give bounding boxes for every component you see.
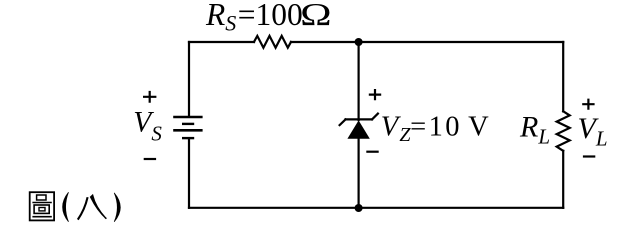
- wire middle rail lower: [358, 139, 360, 208]
- junction dot bottom node: [355, 204, 363, 212]
- wire top-right segment: [291, 41, 563, 43]
- label figure caption: character tu (figure): [30, 192, 54, 220]
- junction dot top node: [355, 38, 363, 46]
- zener bar right tail: [372, 114, 378, 120]
- plus sign V_Z: [369, 89, 381, 100]
- wire right rail upper: [562, 42, 564, 111]
- svg-text:VZ=10V: VZ=10V: [381, 111, 490, 146]
- label figure caption: character eight left stroke: [78, 197, 88, 219]
- label figure caption: close paren: [114, 193, 120, 222]
- svg-text:VL: VL: [578, 112, 608, 150]
- plus sign V_S: [143, 91, 156, 103]
- label figure caption: character eight right stroke: [91, 195, 107, 219]
- minus sign V_L: [583, 155, 595, 157]
- zener diode cathode bar: [346, 118, 373, 120]
- svg-text:Ω: Ω: [300, 0, 332, 32]
- resistor R_L zigzag: [557, 111, 570, 151]
- battery V_S plate short bottom: [183, 137, 193, 139]
- wire right rail lower: [562, 151, 564, 208]
- wire middle rail upper: [358, 42, 360, 120]
- battery V_S plate long bottom: [175, 129, 202, 132]
- minus sign V_S: [144, 158, 156, 160]
- svg-text:VS: VS: [133, 107, 162, 146]
- wire bottom: [189, 207, 563, 209]
- battery V_S plate short: [183, 123, 193, 125]
- zener bar left tail: [340, 119, 346, 125]
- battery V_S plate long top: [175, 116, 202, 119]
- wire left rail lower: [188, 138, 190, 208]
- zener diode triangle: [347, 120, 369, 138]
- resistor R_S zigzag: [254, 36, 291, 48]
- wire left rail upper: [188, 42, 190, 116]
- wire top-left segment: [189, 41, 254, 43]
- label figure caption: open paren: [63, 192, 69, 222]
- plus sign V_L: [582, 99, 594, 110]
- svg-text:RL: RL: [519, 111, 550, 149]
- svg-text:RS=100: RS=100: [205, 0, 303, 35]
- minus sign V_Z: [366, 151, 378, 153]
